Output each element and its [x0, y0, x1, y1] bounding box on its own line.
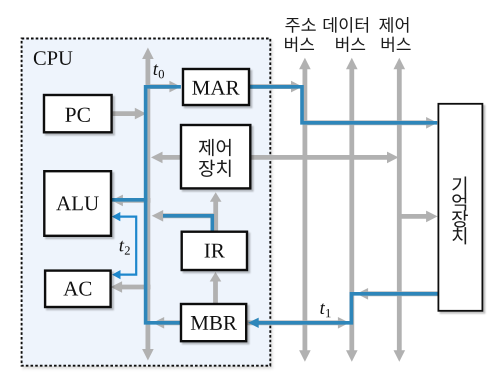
label IR — [205, 244, 225, 258]
ALU box — [44, 171, 111, 236]
label control unit line 2 (장치) — [199, 160, 231, 177]
label t2 — [120, 241, 130, 255]
data bus vertical — [346, 58, 358, 362]
register IR box — [182, 232, 247, 270]
wire MAR to address bus (gray arrow) — [249, 81, 303, 93]
label bus 1 (버스) — [285, 37, 314, 52]
label PC — [65, 108, 89, 122]
wire thin blue t2 path linking ALU and AC — [120, 217, 136, 275]
blue arrowhead into MBR — [248, 318, 259, 328]
label t1 — [320, 303, 330, 317]
wire MBR to data bus (gray arrow) — [246, 317, 349, 329]
register MBR box — [181, 304, 246, 341]
wire blue IR branch to internal bus row — [163, 216, 212, 232]
thin blue arrowhead into ALU — [112, 212, 121, 221]
label AC — [63, 282, 91, 296]
wire internal bus to MAR (gray arrow) — [148, 81, 181, 93]
wire blue t0 path: internal bus down to MBR row and into MAR — [146, 87, 181, 323]
label bus 3 (버스) — [382, 37, 411, 52]
wire blue t1 path: memory to data bus to MBR — [259, 294, 439, 323]
label control unit line 1 (제어) — [199, 139, 231, 156]
wire internal bus to ALU (gray arrow) — [111, 195, 150, 207]
register AC box — [45, 271, 111, 307]
label bus 2 (버스) — [336, 37, 365, 52]
wire PC to internal bus (gray arrow) — [112, 108, 147, 120]
wire MBR to IR (gray arrow) — [210, 272, 222, 304]
register MAR box — [183, 69, 249, 105]
control bus vertical — [394, 58, 406, 362]
internal CPU bus (gray vertical, arrows both ends) — [142, 48, 154, 361]
label t0 — [154, 64, 164, 78]
label ALU — [56, 196, 99, 210]
wire internal bus to AC (gray arrow) — [111, 281, 151, 293]
wire blue t0 path: MAR to address bus to memory — [249, 87, 437, 123]
control unit box — [181, 125, 250, 188]
address bus vertical — [299, 58, 311, 362]
label memory (기억장치) — [452, 176, 468, 244]
wire control unit to control bus (double-headed gray) — [151, 152, 399, 164]
wire control bus to memory (gray arrow) — [399, 211, 437, 223]
label MBR — [191, 316, 237, 330]
wire address bus to memory (gray arrow) — [305, 117, 438, 129]
label MAR — [192, 81, 239, 95]
CPU panel (dashed box) — [22, 39, 271, 366]
wire IR to control unit (gray arrow) — [210, 192, 222, 232]
label CPU — [34, 51, 73, 65]
thin blue arrowhead into AC — [112, 270, 121, 279]
memory box — [438, 104, 482, 311]
label data bus (데이터) — [324, 17, 368, 33]
register PC box — [44, 95, 112, 132]
label address bus (주소) — [285, 18, 315, 33]
wire blue ALU branch over gray arrow — [111, 198, 147, 202]
wire MBR to internal bus (gray arrow) — [153, 317, 181, 329]
label control bus (제어) — [379, 17, 408, 33]
wire memory to data bus (gray arrow) — [357, 288, 439, 300]
wire IR row to internal bus (gray arrow) — [152, 210, 214, 222]
